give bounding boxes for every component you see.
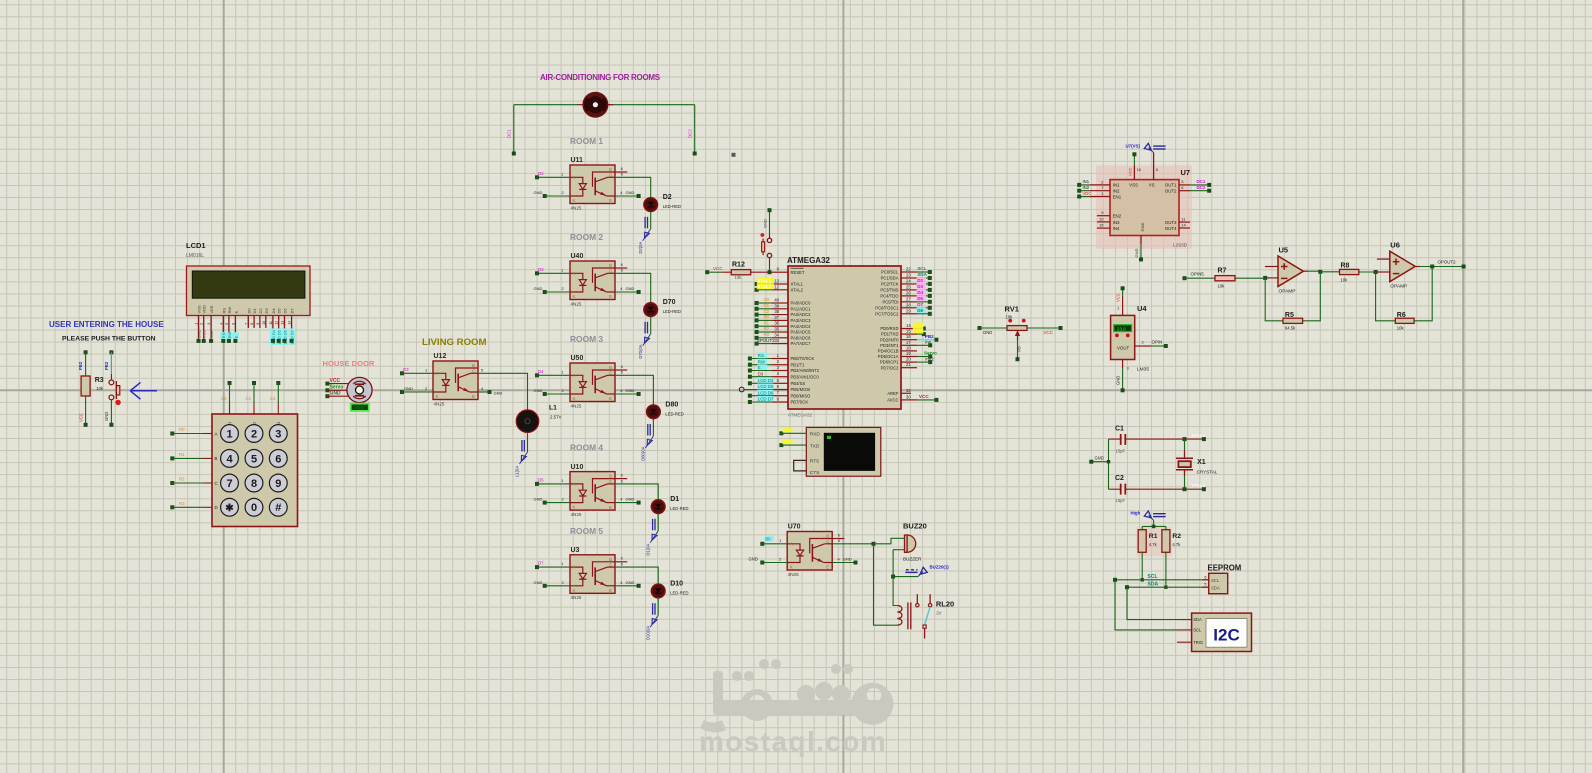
svg-text:20: 20 (906, 357, 911, 362)
svg-text:28: 28 (906, 302, 911, 307)
svg-text:C0: C0 (221, 396, 227, 401)
svg-text:4: 4 (226, 453, 233, 465)
svg-text:C: C (609, 269, 612, 274)
svg-text:E: E (472, 394, 475, 399)
svg-text:D0: D0 (246, 308, 251, 314)
svg-text:SDA: SDA (1193, 617, 1202, 622)
svg-text:XTAL2: XTAL2 (791, 287, 804, 292)
svg-text:LCD1: LCD1 (186, 241, 206, 250)
svg-text:ATMEGA32: ATMEGA32 (788, 413, 813, 418)
svg-text:4N25: 4N25 (571, 205, 582, 210)
svg-text:PA4/ADC4: PA4/ADC4 (791, 324, 812, 329)
svg-text:U6: U6 (1390, 241, 1400, 250)
svg-text:IN2: IN2 (1083, 185, 1090, 190)
svg-text:15pF: 15pF (1116, 498, 1126, 503)
svg-text:DC2: DC2 (1197, 185, 1206, 190)
svg-text:E: E (233, 335, 238, 338)
svg-text:SCL: SCL (917, 266, 926, 271)
svg-text:GND: GND (330, 391, 342, 397)
svg-text:D80(0A: D80(0A (641, 446, 646, 460)
svg-text:LCD D6: LCD D6 (758, 390, 774, 395)
svg-text:15: 15 (1099, 223, 1104, 228)
svg-text:D2: D2 (538, 171, 544, 176)
svg-text:E: E (609, 588, 612, 593)
svg-text:I2C: I2C (1213, 626, 1239, 645)
svg-text:PC1/SDA: PC1/SDA (881, 276, 899, 281)
svg-text:ROOM 3: ROOM 3 (570, 334, 603, 344)
svg-text:C: C (609, 562, 612, 567)
svg-text:R2: R2 (764, 326, 770, 331)
svg-text:R2: R2 (1172, 533, 1181, 540)
svg-text:GND: GND (626, 580, 635, 585)
svg-text:6: 6 (275, 453, 281, 465)
svg-text:PD5/OC1A: PD5/OC1A (878, 354, 899, 359)
svg-text:23.0: 23.0 (1117, 326, 1126, 331)
svg-text:4N25: 4N25 (571, 403, 582, 408)
svg-text:GND: GND (626, 190, 635, 195)
svg-text:33: 33 (774, 338, 779, 343)
svg-text:AREF: AREF (887, 391, 899, 396)
svg-text:XTAL2: XTAL2 (1192, 483, 1206, 488)
svg-text:PD6/ICP1: PD6/ICP1 (880, 360, 899, 365)
svg-text:OUT2: OUT2 (1165, 188, 1177, 193)
svg-text:AVCC: AVCC (887, 398, 898, 403)
svg-text:LED-RED: LED-RED (670, 591, 688, 596)
svg-text:16: 16 (906, 334, 911, 339)
svg-text:D2: D2 (917, 278, 923, 283)
svg-text:RV1: RV1 (1005, 305, 1019, 314)
svg-text:U3: U3 (571, 547, 580, 554)
svg-text:GND: GND (626, 286, 635, 291)
svg-text:2.57V: 2.57V (550, 415, 562, 420)
svg-text:10k: 10k (1397, 326, 1405, 331)
svg-text:32: 32 (906, 388, 911, 393)
svg-text:ROOM 5: ROOM 5 (570, 526, 603, 536)
svg-text:LCD D7: LCD D7 (758, 397, 774, 402)
svg-text:U5: U5 (1279, 246, 1289, 255)
svg-text:E: E (233, 311, 238, 314)
svg-text:RW: RW (758, 359, 766, 364)
svg-text:1: 1 (195, 323, 199, 325)
svg-text:PD7/OC2: PD7/OC2 (881, 365, 900, 370)
svg-text:PB6/MISO: PB6/MISO (791, 393, 812, 398)
svg-text:LCD D4: LCD D4 (758, 378, 774, 383)
svg-text:14: 14 (1181, 222, 1186, 227)
svg-text:A: A (215, 431, 218, 436)
svg-text:SDA: SDA (1148, 582, 1159, 588)
svg-text:GND: GND (626, 497, 635, 502)
svg-text:PA1/ADC1: PA1/ADC1 (791, 306, 812, 311)
svg-text:VCC: VCC (713, 266, 723, 271)
svg-text:D2: D2 (258, 308, 263, 314)
svg-text:VCC: VCC (919, 394, 929, 399)
svg-text:PB3/AIN1/OC0: PB3/AIN1/OC0 (791, 374, 820, 379)
svg-text:C0: C0 (764, 297, 770, 302)
svg-text:4N25: 4N25 (571, 301, 582, 306)
svg-text:VCC: VCC (330, 378, 341, 384)
svg-text:TXD: TXD (810, 443, 820, 449)
svg-text:PB2: PB2 (104, 361, 109, 370)
svg-text:R12: R12 (732, 262, 745, 269)
svg-text:2: 2 (200, 323, 204, 325)
svg-text:OPIN5: OPIN5 (1191, 272, 1205, 277)
svg-text:LM35: LM35 (1137, 367, 1149, 373)
svg-text:DC1: DC1 (1197, 179, 1206, 184)
svg-text:IN2: IN2 (1113, 188, 1120, 193)
svg-text:PC4/TDO: PC4/TDO (880, 293, 899, 298)
svg-text:ROOM 2: ROOM 2 (570, 232, 603, 242)
svg-text:10: 10 (262, 321, 266, 325)
svg-text:C: C (609, 173, 612, 178)
svg-text:OPIN: OPIN (1152, 340, 1163, 345)
svg-text:K: K (573, 588, 576, 593)
svg-text:B: B (609, 263, 612, 268)
svg-text:C1: C1 (1115, 426, 1124, 433)
svg-text:GND: GND (749, 557, 758, 562)
svg-text:R0: R0 (179, 427, 185, 432)
svg-text:VOUT: VOUT (1117, 346, 1130, 351)
svg-text:4.7k: 4.7k (1149, 542, 1158, 547)
svg-text:LIVING ROOM: LIVING ROOM (422, 337, 487, 348)
svg-text:R3: R3 (95, 377, 104, 384)
svg-text:14: 14 (288, 321, 292, 325)
svg-text:XTAL1: XTAL1 (1192, 433, 1206, 438)
svg-text:U40: U40 (571, 253, 584, 260)
svg-text:2: 2 (251, 428, 257, 440)
svg-text:VEE: VEE (209, 305, 214, 313)
svg-text:4N25: 4N25 (788, 572, 799, 577)
svg-text:B: B (472, 363, 475, 368)
svg-text:GND: GND (626, 388, 635, 393)
svg-text:4.7k: 4.7k (1172, 542, 1181, 547)
svg-text:7: 7 (244, 323, 248, 325)
svg-text:RS: RS (221, 308, 226, 314)
svg-text:R8: R8 (1341, 263, 1350, 270)
svg-text:BUZ20: BUZ20 (903, 522, 927, 531)
svg-text:K: K (573, 198, 576, 203)
svg-text:GND: GND (534, 190, 543, 195)
svg-text:4N25: 4N25 (571, 512, 582, 517)
svg-text:PB1/T1: PB1/T1 (791, 362, 806, 367)
svg-text:5: 5 (251, 453, 257, 465)
svg-text:K: K (573, 396, 576, 401)
svg-text:K: K (573, 294, 576, 299)
svg-text:EEPROM: EEPROM (1208, 564, 1242, 573)
svg-text:2V: 2V (936, 611, 941, 616)
svg-text:LM016L: LM016L (186, 253, 204, 259)
svg-text:A: A (573, 482, 576, 487)
svg-text:17: 17 (906, 340, 911, 345)
svg-text:VCC: VCC (79, 413, 84, 422)
svg-text:OUT3: OUT3 (1165, 220, 1177, 225)
svg-text:A: A (790, 541, 793, 546)
svg-text:12: 12 (275, 321, 279, 325)
svg-text:ATMEGA32: ATMEGA32 (787, 256, 831, 265)
svg-text:USER ENTERING THE HOUSE: USER ENTERING THE HOUSE (49, 320, 164, 329)
svg-text:VSS: VSS (1129, 183, 1138, 188)
svg-text:D2(0A: D2(0A (638, 242, 643, 254)
svg-text:D3: D3 (758, 371, 764, 376)
svg-text:R1: R1 (1149, 533, 1158, 540)
svg-text:U50: U50 (571, 355, 584, 362)
svg-text:PA7/ADC7: PA7/ADC7 (791, 341, 812, 346)
svg-text:GND: GND (534, 286, 543, 291)
svg-text:LCD D5: LCD D5 (758, 384, 774, 389)
svg-text:11: 11 (269, 321, 273, 325)
svg-text:4: 4 (219, 323, 223, 325)
svg-text:D70: D70 (663, 299, 676, 306)
svg-text:4N25: 4N25 (571, 595, 582, 600)
svg-text:27: 27 (906, 296, 911, 301)
svg-text:SCL: SCL (1193, 628, 1202, 633)
svg-text:4N25: 4N25 (434, 401, 445, 406)
svg-text:K: K (573, 505, 576, 510)
svg-text:PC0/SCL: PC0/SCL (881, 270, 899, 275)
svg-text:5: 5 (1204, 583, 1206, 587)
svg-text:PB0/T0/XCK: PB0/T0/XCK (791, 356, 815, 361)
svg-text:8: 8 (250, 323, 254, 325)
svg-text:D10: D10 (670, 581, 683, 588)
svg-text:HOUSE DOOR: HOUSE DOOR (323, 359, 375, 368)
svg-text:E: E (609, 294, 612, 299)
svg-text:U70: U70 (788, 524, 801, 531)
svg-text:PD3/INT1: PD3/INT1 (880, 343, 899, 348)
svg-text:+0.0: +0.0 (355, 406, 364, 411)
svg-text:IN1: IN1 (1113, 183, 1120, 188)
svg-text:C2: C2 (270, 396, 276, 401)
svg-text:13: 13 (774, 279, 779, 284)
svg-text:VDC: VDC (1083, 191, 1092, 196)
svg-text:23: 23 (906, 272, 911, 277)
svg-text:21: 21 (906, 362, 911, 367)
svg-text:D5: D5 (277, 308, 282, 314)
svg-text:RS: RS (758, 353, 764, 358)
svg-text:ROOM 4: ROOM 4 (570, 443, 603, 453)
svg-text:D5: D5 (917, 296, 923, 301)
svg-text:9: 9 (275, 478, 281, 490)
svg-text:R7: R7 (1218, 268, 1227, 275)
svg-text:#: # (275, 502, 281, 514)
svg-text:7: 7 (226, 478, 232, 490)
svg-text:10k: 10k (1218, 284, 1226, 289)
svg-text:29: 29 (906, 308, 911, 313)
svg-text:DC1: DC1 (507, 129, 512, 138)
svg-text:94.5k: 94.5k (1285, 326, 1296, 331)
svg-text:D4: D4 (917, 290, 923, 295)
svg-text:PA3/ADC3: PA3/ADC3 (791, 318, 812, 323)
svg-text:OUT1: OUT1 (1165, 183, 1177, 188)
svg-text:K: K (790, 565, 793, 570)
svg-text:L1(0A: L1(0A (515, 466, 520, 477)
svg-text:R1: R1 (764, 320, 770, 325)
svg-text:26: 26 (906, 290, 911, 295)
svg-text:30: 30 (906, 394, 911, 399)
svg-text:PB4/SS: PB4/SS (791, 381, 806, 386)
svg-text:L293D: L293D (1173, 243, 1188, 249)
svg-text:PC3/TMS: PC3/TMS (880, 288, 898, 293)
svg-text:CTS: CTS (810, 470, 820, 476)
svg-text:D10(0A: D10(0A (645, 626, 650, 640)
svg-text:R3: R3 (179, 501, 185, 506)
svg-text:16: 16 (1137, 168, 1141, 172)
svg-text:D6: D6 (283, 308, 288, 314)
svg-text:PA0/ADC0: PA0/ADC0 (791, 301, 812, 306)
svg-text:GND: GND (404, 386, 413, 391)
svg-text:37: 37 (774, 315, 779, 320)
svg-text:U7: U7 (1181, 168, 1191, 177)
svg-text:D5: D5 (538, 478, 544, 483)
svg-text:D4: D4 (271, 308, 276, 314)
svg-text:C: C (472, 369, 475, 374)
svg-text:RS: RS (221, 332, 226, 338)
svg-text:U11: U11 (571, 157, 584, 164)
svg-text:14: 14 (906, 323, 911, 328)
svg-text:PB2: PB2 (925, 334, 934, 339)
svg-text:38: 38 (774, 309, 779, 314)
svg-text:RXD: RXD (810, 432, 821, 438)
svg-text:6: 6 (1204, 575, 1206, 579)
svg-text:SDA: SDA (917, 272, 927, 277)
svg-text:D70(0A: D70(0A (638, 344, 643, 358)
svg-text:VO: VO (1017, 346, 1022, 352)
svg-text:PC5/TDI: PC5/TDI (882, 299, 898, 304)
svg-text:D80: D80 (665, 401, 678, 408)
svg-text:RTS: RTS (810, 459, 820, 465)
svg-text:RESET: RESET (791, 270, 805, 275)
svg-text:GND: GND (1095, 456, 1104, 461)
svg-text:1: 1 (226, 428, 232, 440)
svg-text:VEE: VEE (209, 330, 214, 338)
svg-text:13: 13 (281, 321, 285, 325)
svg-text:E: E (609, 396, 612, 401)
svg-text:EN1: EN1 (1113, 195, 1122, 200)
svg-text:RW: RW (227, 307, 232, 314)
svg-text:10k: 10k (1006, 315, 1014, 320)
svg-text:10: 10 (1099, 216, 1104, 221)
svg-text:OPAMP: OPAMP (1390, 284, 1407, 290)
svg-text:VS: VS (1149, 183, 1155, 188)
svg-text:D7: D7 (917, 302, 923, 307)
svg-text:D3: D3 (264, 308, 269, 314)
svg-text:GND: GND (762, 219, 767, 228)
svg-text:✱: ✱ (225, 503, 234, 514)
svg-text:PD0/RXD: PD0/RXD (880, 326, 898, 331)
svg-text:D3: D3 (917, 284, 923, 289)
svg-text:R0: R0 (764, 315, 770, 320)
svg-text:22: 22 (906, 267, 911, 272)
svg-text:10k: 10k (1341, 278, 1349, 283)
svg-text:CRYSTAL: CRYSTAL (1197, 470, 1218, 475)
svg-text:GND: GND (983, 330, 992, 335)
svg-text:C2: C2 (764, 309, 770, 314)
svg-text:D3: D3 (538, 267, 544, 272)
svg-text:D1: D1 (670, 496, 679, 503)
svg-text:3: 3 (207, 323, 211, 325)
svg-text:RL20: RL20 (936, 600, 954, 609)
svg-text:25: 25 (906, 284, 911, 289)
svg-text:GND: GND (1116, 376, 1121, 385)
svg-text:E: E (826, 565, 829, 570)
svg-text:35: 35 (774, 327, 779, 332)
svg-text:TRIG: TRIG (1193, 640, 1203, 645)
svg-text:BUZ20(1): BUZ20(1) (930, 565, 950, 570)
svg-text:PA2/ADC2: PA2/ADC2 (791, 312, 812, 317)
svg-text:PA6/ADC6: PA6/ADC6 (791, 335, 812, 340)
svg-text:B: B (609, 474, 612, 479)
svg-text:C: C (609, 371, 612, 376)
svg-text:D1: D1 (252, 308, 257, 314)
svg-text:D1(0A: D1(0A (645, 544, 650, 556)
svg-text:3: 3 (275, 428, 281, 440)
svg-text:R1: R1 (179, 452, 185, 457)
svg-text:X1: X1 (1197, 459, 1206, 466)
svg-text:5: 5 (225, 323, 229, 325)
svg-text:PC7/TOSC2: PC7/TOSC2 (875, 311, 899, 316)
svg-text:E: E (609, 505, 612, 510)
svg-text:U7(VS): U7(VS) (1126, 144, 1141, 149)
svg-text:XTAL2: XTAL2 (758, 284, 772, 289)
svg-text:PLEASE PUSH THE BUTTON: PLEASE PUSH THE BUTTON (62, 336, 156, 343)
svg-text:PB2: PB2 (78, 361, 83, 370)
svg-text:XTAL1: XTAL1 (791, 282, 804, 287)
svg-text:BUZZER: BUZZER (903, 557, 922, 562)
svg-text:RW: RW (227, 331, 232, 338)
svg-text:R3: R3 (764, 332, 770, 337)
svg-text:18: 18 (906, 345, 911, 350)
svg-text:SCL: SCL (1148, 574, 1158, 580)
svg-text:B: B (609, 365, 612, 370)
svg-text:40: 40 (774, 298, 779, 303)
svg-text:9: 9 (256, 323, 260, 325)
svg-text:A: A (573, 271, 576, 276)
svg-text:LED-RED: LED-RED (670, 506, 688, 511)
svg-text:6: 6 (231, 323, 235, 325)
svg-text:R5: R5 (1285, 312, 1294, 319)
svg-text:A: A (573, 565, 576, 570)
svg-text:K: K (436, 394, 439, 399)
svg-text:B: B (609, 557, 612, 562)
svg-text:LED-RED: LED-RED (665, 411, 683, 416)
svg-text:GND: GND (104, 412, 109, 421)
svg-text:PC6/TOSC1: PC6/TOSC1 (875, 305, 899, 310)
svg-text:PB2/AIN0/INT2: PB2/AIN0/INT2 (791, 368, 820, 373)
svg-text:PC2/TCK: PC2/TCK (881, 282, 899, 287)
svg-text:U4: U4 (1137, 304, 1147, 313)
svg-text:GND: GND (534, 580, 543, 585)
svg-text:B: B (826, 534, 829, 539)
svg-text:PD4/OC1B: PD4/OC1B (878, 349, 899, 354)
svg-text:PA5/ADC5: PA5/ADC5 (791, 330, 812, 335)
svg-text:B0: B0 (765, 537, 771, 542)
svg-text:VCC: VCC (1116, 293, 1121, 302)
svg-text:PD1/TXD: PD1/TXD (881, 332, 899, 337)
svg-text:EN2: EN2 (1113, 214, 1122, 219)
svg-text:XTAL1: XTAL1 (758, 278, 772, 283)
svg-text:D3: D3 (403, 367, 409, 372)
svg-text:34: 34 (774, 332, 779, 337)
svg-text:ROOM 1: ROOM 1 (570, 136, 603, 146)
svg-text:LED-RED: LED-RED (663, 204, 681, 209)
svg-text:15pF: 15pF (1116, 449, 1126, 454)
svg-text:A: A (573, 175, 576, 180)
svg-text:C2: C2 (1115, 475, 1124, 482)
svg-text:OUT4: OUT4 (1165, 226, 1177, 231)
svg-text:8: 8 (1156, 168, 1158, 172)
svg-text:VCC: VCC (1127, 167, 1132, 176)
svg-text:D2: D2 (663, 194, 672, 201)
svg-text:D4: D4 (538, 369, 544, 374)
svg-text:SCL: SCL (1211, 578, 1220, 583)
